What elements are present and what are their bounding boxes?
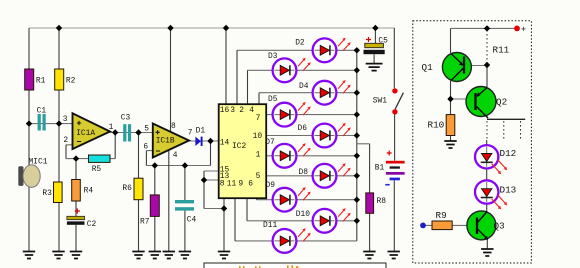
svg-text:R11: R11 (493, 44, 510, 55)
svg-text:R6: R6 (122, 184, 132, 193)
svg-text:R4: R4 (84, 187, 94, 196)
svg-text:Q2: Q2 (496, 97, 507, 108)
svg-text:8: 8 (171, 122, 176, 131)
svg-text:9: 9 (238, 180, 243, 189)
svg-text:R1: R1 (36, 77, 46, 86)
svg-text:4: 4 (249, 106, 254, 115)
svg-text:5: 5 (144, 124, 149, 133)
svg-text:C2: C2 (87, 220, 97, 229)
svg-text:Q3: Q3 (494, 221, 505, 232)
svg-text:1: 1 (256, 151, 261, 160)
svg-text:D12: D12 (500, 148, 517, 159)
svg-text:11: 11 (227, 180, 237, 189)
svg-text:D13: D13 (500, 185, 517, 196)
svg-text:IC1B: IC1B (156, 137, 175, 146)
svg-text:C3: C3 (121, 114, 131, 123)
svg-text:7: 7 (188, 129, 193, 138)
svg-text:5: 5 (256, 172, 261, 181)
svg-text:6: 6 (248, 180, 253, 189)
svg-text:D5: D5 (268, 95, 278, 104)
svg-text:7: 7 (256, 114, 261, 123)
svg-text:D1: D1 (196, 127, 206, 136)
svg-text:1: 1 (109, 123, 114, 132)
svg-text:IC2: IC2 (232, 142, 246, 151)
svg-text:D10: D10 (296, 210, 310, 219)
svg-text:R9: R9 (436, 210, 447, 221)
svg-text:D3: D3 (268, 52, 278, 61)
svg-text:C5: C5 (378, 37, 388, 46)
svg-text:R10: R10 (428, 120, 445, 131)
svg-text:B1: B1 (375, 164, 385, 173)
svg-text:MIC1: MIC1 (29, 158, 48, 167)
svg-text:8: 8 (220, 180, 225, 189)
svg-text:3: 3 (63, 115, 68, 124)
svg-text:C4: C4 (187, 216, 197, 225)
svg-text:C1: C1 (37, 107, 47, 116)
svg-text:14: 14 (220, 139, 230, 148)
svg-text:D6: D6 (298, 124, 308, 133)
svg-text:R3: R3 (42, 189, 52, 198)
svg-text:D7: D7 (265, 138, 275, 147)
svg-text:D8: D8 (299, 168, 309, 177)
svg-text:R7: R7 (140, 218, 150, 227)
svg-text:2: 2 (63, 136, 68, 145)
svg-text:D2: D2 (295, 39, 305, 48)
svg-text:Q1: Q1 (422, 62, 434, 73)
svg-text:R8: R8 (377, 197, 387, 206)
svg-text:IC1A: IC1A (76, 129, 95, 138)
svg-text:D9: D9 (266, 181, 276, 190)
svg-text:6: 6 (143, 143, 148, 152)
svg-text:2: 2 (239, 106, 244, 115)
svg-text:R5: R5 (92, 165, 102, 174)
svg-text:D4: D4 (299, 82, 309, 91)
svg-text:D11: D11 (263, 221, 277, 230)
svg-text:R2: R2 (66, 77, 76, 86)
svg-text:3: 3 (230, 106, 235, 115)
svg-text:16: 16 (220, 106, 230, 115)
svg-text:SW1: SW1 (373, 97, 387, 106)
svg-text:4: 4 (173, 151, 178, 160)
svg-text:10: 10 (253, 132, 263, 141)
